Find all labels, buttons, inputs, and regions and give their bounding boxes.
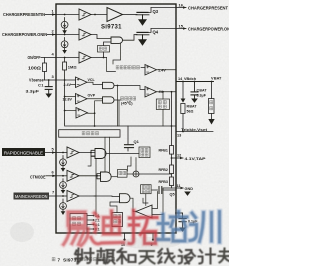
ground below CBAT — [191, 99, 198, 103]
feedback divider rail — [171, 92, 173, 146]
current source I4 — [60, 182, 67, 189]
svg-text:RAPIDCHGENABLE: RAPIDCHGENABLE — [4, 151, 43, 156]
wire G5 output to fast charge box — [106, 153, 139, 155]
label qualify-charge (CJK) — [121, 97, 124, 100]
wire battery min voltage to comparator U5 — [107, 58, 145, 72]
timer block — [70, 214, 87, 234]
current arrow into RBAT — [182, 82, 184, 99]
pin 13 wire trickle set — [176, 131, 213, 133]
wire RFB1 to RFB2 — [171, 154, 173, 165]
wire U4 feedback loop — [88, 101, 103, 126]
svg-text:56Ω: 56Ω — [187, 110, 194, 114]
capacitor CQ5 — [159, 187, 162, 194]
wire pin15 output — [176, 28, 186, 30]
wire pin3 internal rail — [56, 79, 76, 81]
junction sense column comparator C input — [64, 110, 66, 112]
wire G3 output — [114, 100, 121, 126]
junction VBAT rail / CBAT — [194, 81, 196, 83]
svg-text:Si9731: Si9731 — [101, 25, 122, 31]
wire RFB3 to pin11 rail — [171, 186, 173, 188]
wire branch to trickle rail — [117, 86, 119, 127]
wire mid vertical bus a — [94, 125, 96, 127]
slogan char SHE (gray) — [75, 249, 94, 264]
junction pin1 current source — [64, 14, 66, 16]
wire G2 output to comparator 4V — [114, 86, 145, 90]
junction pin4 — [64, 57, 66, 59]
watermark char TUO (red) — [129, 211, 157, 244]
inhibit logic box — [98, 46, 110, 53]
wire OVP output to gates — [87, 98, 103, 100]
wire trickle rail — [65, 124, 176, 126]
watermark char XUN (blue) halo — [190, 212, 220, 243]
trickle charge block — [59, 130, 120, 138]
AND gate G6 — [101, 172, 112, 181]
comparator U2 VCL — [76, 77, 88, 88]
svg-text:CHARGERPRESENT: CHARGERPRESENT — [188, 5, 228, 10]
svg-text:CTMODE: CTMODE — [30, 174, 46, 179]
wire mid vertical bus d — [113, 43, 121, 64]
pin 12 wire — [172, 157, 184, 159]
svg-text:(45℃): (45℃) — [121, 101, 133, 106]
svg-text:1MΩ: 1MΩ — [68, 65, 78, 70]
slogan char XIAN (gray) — [158, 249, 175, 263]
watermark char XUN (blue) — [190, 212, 220, 243]
wire pin11 internal — [152, 188, 176, 190]
transistor Q4 — [136, 29, 151, 35]
ground below C1 — [45, 94, 52, 98]
charge status box — [156, 99, 169, 110]
comparator U6 4V — [145, 87, 157, 98]
junction pin13 / RBAT — [182, 131, 184, 133]
svg-text:15: 15 — [179, 24, 184, 29]
AND gate G2 — [103, 82, 115, 88]
svg-text:13: 13 — [177, 134, 181, 138]
AND gate G3 — [103, 97, 115, 103]
svg-text:11: 11 — [177, 184, 181, 188]
wire pin6 to buffer A6 — [56, 175, 67, 177]
driver amplifier T1 — [107, 8, 123, 22]
junction pin7 — [62, 195, 64, 197]
wire mid vertical bus b — [101, 137, 106, 174]
buffer A7 — [67, 191, 79, 202]
wire osc to G7 — [110, 200, 120, 212]
wire pin16 output — [176, 7, 186, 9]
wire 2.4V input — [71, 84, 76, 86]
wire current sense down — [145, 194, 147, 206]
capacitor C1 — [45, 80, 52, 94]
svg-text:Q5: Q5 — [170, 193, 175, 197]
svg-text:16: 16 — [179, 3, 184, 8]
wire A5 to AND gate G5 — [79, 150, 95, 156]
svg-text:3.3μF: 3.3μF — [197, 94, 207, 98]
wire opamp output to Q5 — [152, 190, 163, 215]
wire pin5 to buffer A5 — [56, 152, 67, 154]
watermark char DI (red) halo — [91, 211, 124, 244]
wire T1 to Q3 gate — [123, 14, 138, 16]
svg-text:RFB2: RFB2 — [159, 168, 168, 172]
buffer A1 (pin1 schmitt input) — [79, 9, 91, 20]
wire summing node right — [139, 173, 172, 175]
wire OVP input — [65, 96, 76, 98]
buffer A5 — [67, 147, 79, 158]
junction sense column comparator B input — [64, 96, 66, 98]
svg-text:1.4V: 1.4V — [158, 69, 166, 73]
ground symbol pin11 — [184, 192, 191, 196]
buffer A6 — [67, 170, 79, 181]
comparator U3 OVP — [76, 94, 88, 105]
svg-text:Trickle,Vset: Trickle,Vset — [181, 128, 208, 132]
watermark char DI (red) — [91, 211, 124, 244]
wire osc top bus — [143, 198, 148, 203]
resistor 1Mohm — [63, 58, 67, 81]
watermark char YI (red) — [64, 212, 89, 246]
svg-text:7: 7 — [58, 258, 61, 263]
wire G5 aux input — [88, 156, 95, 166]
label trickle-charge (CJK) — [82, 132, 85, 135]
junction tap 4.1V — [171, 157, 173, 159]
ground below C2 — [179, 228, 186, 232]
wire A7 to AND gate G7 — [79, 195, 120, 198]
slogan char ZHUAN (gray) — [219, 249, 230, 263]
wire pin1 input — [45, 14, 56, 16]
junction VBAT rail / RBAT — [182, 81, 184, 83]
wire pin5 input — [45, 152, 56, 154]
svg-text:RFB1: RFB1 — [159, 149, 168, 153]
resistor RBAT — [181, 104, 185, 132]
pin 11 wire GND — [176, 187, 183, 189]
junction pin6 — [62, 175, 64, 177]
svg-text:100Ω: 100Ω — [28, 66, 42, 71]
summing node — [133, 171, 139, 177]
wire pin4 to buffer A3 — [56, 57, 79, 59]
wire summing node up to fast charge — [135, 158, 137, 171]
opamp U7 — [136, 205, 152, 218]
wire pin2 input — [47, 34, 56, 36]
capacitor CBAT — [191, 82, 198, 99]
wire Q4 drain to pin15 — [151, 28, 176, 30]
svg-text:3.3μF: 3.3μF — [26, 89, 40, 94]
current source I1 — [61, 21, 68, 28]
svg-text:VBdch: VBdch — [184, 77, 197, 81]
svg-text:Q1: Q1 — [134, 139, 140, 144]
svg-text:CHARGERPRESENTIN: CHARGERPRESENTIN — [3, 12, 45, 17]
svg-text:ON/OFF: ON/OFF — [28, 55, 41, 60]
current source I2 — [61, 41, 68, 48]
slogan char JI (gray) — [199, 249, 216, 264]
svg-text:OVP: OVP — [88, 94, 96, 98]
svg-text:CHARGERPOWER.ONIN: CHARGERPOWER.ONIN — [2, 32, 47, 37]
bottom pin stub 9 — [152, 233, 154, 239]
pin 14 wire VBAT rail — [176, 81, 214, 83]
wire G7 output to opamp — [130, 198, 136, 211]
bottom pin stub 10 — [124, 233, 126, 239]
junction VBAT rail end — [211, 81, 213, 83]
svg-text:2.4V: 2.4V — [64, 83, 72, 87]
fast charge box — [139, 147, 150, 158]
junction pin5 — [62, 152, 64, 154]
svg-text:C BAT: C BAT — [197, 89, 208, 93]
svg-text:C 1: C 1 — [38, 83, 44, 88]
buffer A2 (pin2 schmitt input) — [79, 29, 91, 40]
wire inhibit box to G1 input — [104, 42, 112, 46]
wire U4 input — [65, 110, 76, 112]
svg-text:CHARGERPOWER.ON: CHARGERPOWER.ON — [188, 26, 229, 31]
wire sense column — [64, 80, 66, 124]
wire A3 output to inhibit box — [91, 52, 107, 58]
svg-text:VCL: VCL — [88, 78, 96, 82]
wire U6 output — [157, 91, 177, 93]
node RAPIDCHGENABLE label (highlighted) — [2, 148, 45, 156]
wire pin6 input — [46, 175, 56, 177]
wire U5 output — [157, 69, 177, 71]
slogan char PIN (gray) — [97, 249, 115, 264]
wire bottom bus — [94, 159, 96, 214]
AND gate G1 — [111, 37, 123, 43]
wire pin4 input — [41, 57, 56, 59]
digital logic box — [117, 170, 127, 178]
buffer A3 (ON/OFF schmitt input) — [79, 52, 91, 63]
resistor RFB2 — [170, 165, 174, 174]
node MAINCHARGE_ON label (highlighted) — [14, 193, 50, 200]
svg-text:Q4: Q4 — [153, 30, 159, 35]
svg-text:GND: GND — [185, 187, 194, 191]
comparator U4 trickle threshold — [76, 108, 88, 119]
AND gate G7 — [120, 194, 131, 203]
watermark char PEI (blue) — [158, 212, 187, 242]
label battery-minimum-voltage (CJK) — [116, 66, 119, 69]
wire pin2 to buffer A2 — [56, 34, 79, 36]
wire Q3 drain to pin16 — [151, 7, 176, 9]
junction pin3/C1 — [48, 79, 50, 81]
wire A1 to driver T1 — [91, 14, 107, 16]
load current arrow — [211, 114, 213, 120]
wire digital box to summing node — [127, 173, 133, 175]
wire A6 to AND gate G6 — [79, 174, 101, 179]
wire pin1 to buffer A1 — [56, 14, 79, 16]
svg-text:R BAT: R BAT — [187, 105, 198, 109]
slogan char HE (gray) — [117, 249, 136, 264]
wire mid vertical bus c — [127, 157, 131, 171]
resistor R 100ohm — [43, 58, 47, 81]
timer block taps — [87, 216, 93, 230]
wire pin7 to buffer A7 — [56, 195, 67, 197]
slogan char SHE2 (gray) — [179, 250, 196, 264]
ground at Q4 source — [142, 35, 144, 39]
AND gate G5 — [95, 149, 106, 159]
wire pin7 input — [49, 195, 56, 197]
transistor Q1 — [125, 126, 134, 151]
junction border bypass cap — [175, 212, 177, 214]
wire pin3 input — [44, 79, 56, 81]
transistor Q3 — [136, 8, 151, 15]
current sense box — [141, 185, 152, 194]
junction pin2 current source — [64, 34, 66, 36]
wire G6 output to digital box — [111, 176, 117, 178]
watermark char YI (red) halo — [64, 212, 89, 246]
current source I3 — [60, 159, 67, 166]
wire RFB2 to RFB3 — [171, 174, 173, 177]
wire U6 to charge status box — [162, 92, 164, 126]
scan smudge artifacts — [10, 222, 180, 249]
wire A2 to AND gate G1 — [91, 35, 111, 39]
svg-text:12.8V: 12.8V — [63, 98, 73, 102]
wire mid vertical bus b2 — [109, 137, 111, 172]
watermark char PEI (blue) halo — [158, 212, 187, 242]
IC U1 Si9731 package outline — [56, 4, 176, 233]
bypass capacitor C2 — [176, 213, 186, 228]
ground at Q3 source — [142, 15, 144, 19]
caption: fig - Si9731 typical application circuit — [52, 258, 114, 264]
svg-text:12: 12 — [177, 154, 181, 158]
watermark char TUO (red) halo — [129, 211, 157, 244]
svg-text:V BAT: V BAT — [211, 77, 222, 81]
oscillator box — [112, 213, 123, 227]
resistor RFB1 — [170, 146, 174, 155]
comparator U5 1.4V — [145, 65, 157, 76]
resistor RFB3 — [170, 177, 174, 186]
current source I5 — [60, 203, 67, 210]
svg-text:MAINCHARGEON: MAINCHARGEON — [15, 194, 48, 199]
svg-text:4.1V,TAP: 4.1V,TAP — [185, 157, 207, 161]
load box — [209, 99, 215, 114]
svg-text:RFB3: RFB3 — [159, 180, 168, 184]
junction pin3 rail — [64, 79, 66, 81]
wire G1 to Q4 gate — [123, 35, 138, 41]
svg-text:Q3: Q3 — [153, 9, 159, 14]
wire VCL output to gates — [87, 82, 103, 84]
slogan char TIAN (gray) — [140, 251, 155, 264]
